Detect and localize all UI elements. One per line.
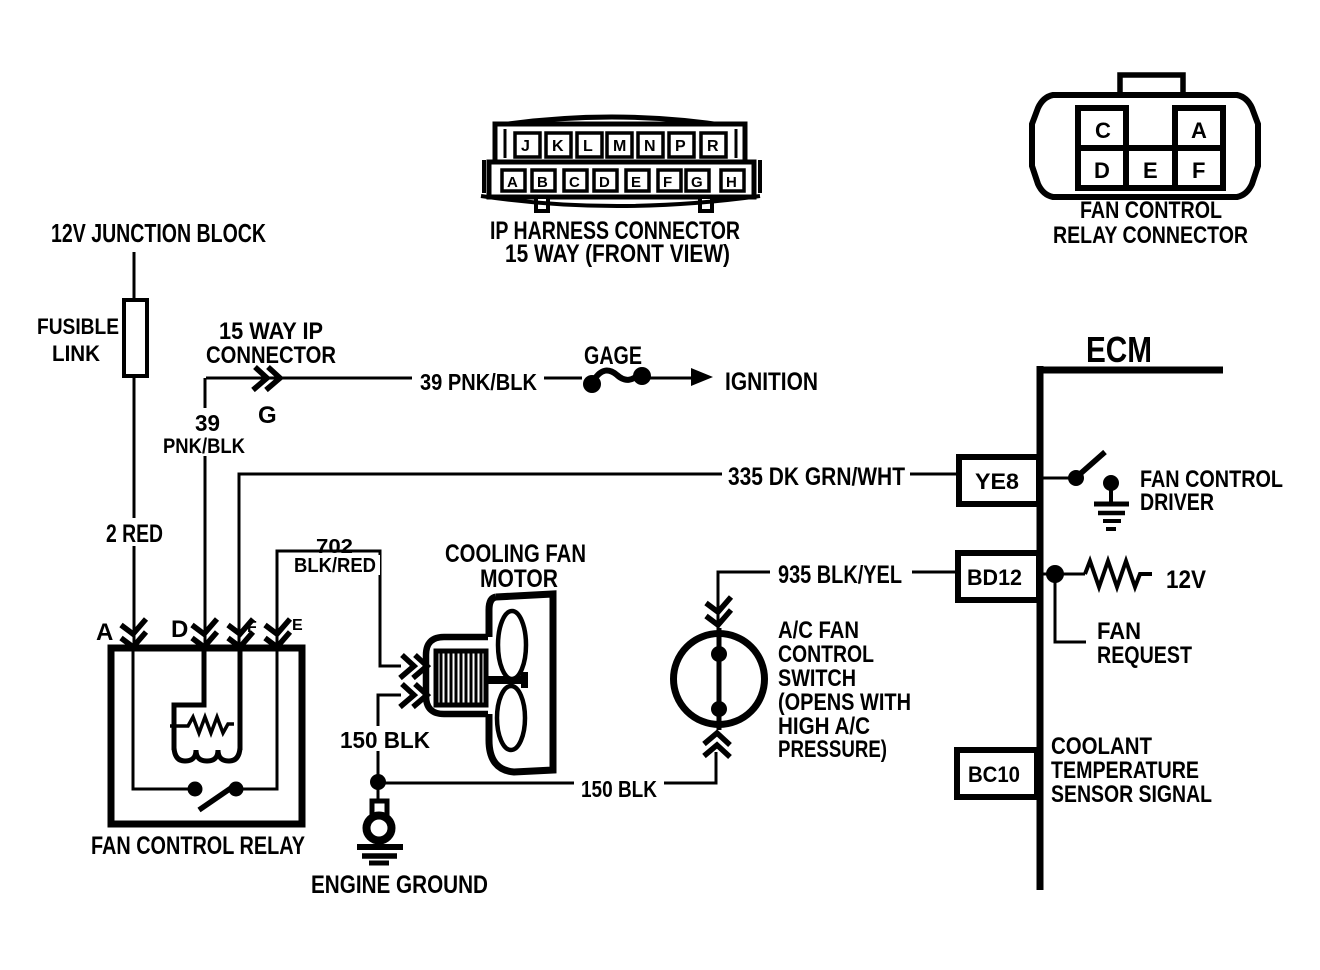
svg-text:F: F (1192, 158, 1205, 183)
svg-text:LINK: LINK (52, 341, 100, 366)
junction node at engine ground (370, 774, 386, 790)
pin C (564, 170, 587, 191)
fan control relay connector (top right) (1032, 75, 1258, 197)
pin R (701, 133, 726, 157)
svg-text:FAN: FAN (1097, 618, 1141, 645)
wire label 2 RED (100, 518, 170, 546)
svg-text:C: C (1095, 118, 1111, 143)
svg-text:D: D (1094, 158, 1110, 183)
svg-text:J: J (521, 138, 530, 155)
svg-text:PNK/BLK: PNK/BLK (163, 435, 245, 458)
svg-text:G: G (691, 174, 703, 191)
connector upper row housing (495, 124, 745, 162)
wire from junction block to fusible link (133, 252, 136, 300)
svg-text:FUSIBLE: FUSIBLE (37, 314, 119, 339)
motor winding hatched block (436, 651, 486, 705)
pin K (546, 133, 571, 157)
svg-text:FAN CONTROL RELAY: FAN CONTROL RELAY (91, 832, 305, 860)
wire 2 RED from fusible link to relay pin A (133, 376, 136, 645)
wire 702 BLK/RED from relay pin E to motor (277, 551, 401, 666)
svg-text:F: F (663, 174, 672, 191)
motor shaft (487, 676, 527, 684)
svg-text:N: N (644, 138, 656, 155)
svg-text:CONNECTOR: CONNECTOR (206, 342, 336, 369)
relay pin D chevron (192, 619, 217, 634)
connector bottom arc (481, 196, 760, 206)
ground inside ECM (1103, 475, 1119, 491)
svg-text:R: R (707, 138, 719, 155)
pin B (532, 170, 555, 191)
svg-text:150 BLK: 150 BLK (340, 727, 430, 753)
pin F (1175, 148, 1223, 188)
ECM terminal BD12 (958, 553, 1039, 600)
relay pin E chevron (265, 619, 290, 634)
svg-text:D: D (171, 616, 188, 643)
pin H (721, 170, 744, 191)
wire label 935 BLK/YEL (770, 558, 912, 586)
relay coil K1 between pins D and F (174, 648, 204, 750)
svg-text:TEMPERATURE: TEMPERATURE (1051, 757, 1199, 784)
svg-text:ECM: ECM (1086, 329, 1152, 370)
pin L (577, 133, 602, 157)
svg-text:IGNITION: IGNITION (725, 368, 818, 396)
connector top arc (494, 117, 728, 126)
fan blade upper (498, 611, 526, 679)
fan control driver switch inside ECM (1041, 477, 1070, 480)
svg-text:YE8: YE8 (975, 469, 1019, 494)
svg-text:C: C (569, 174, 580, 191)
connector lower row housing (489, 162, 754, 197)
junction node at BD12 (1041, 573, 1085, 576)
wire arrow to IGNITION (650, 377, 694, 380)
pin D (594, 170, 617, 191)
motor input chevron upper (400, 655, 414, 678)
svg-text:D: D (599, 174, 610, 191)
svg-text:ENGINE GROUND: ENGINE GROUND (311, 871, 488, 899)
connector tab (1120, 75, 1183, 99)
engine ground symbol (372, 801, 387, 815)
pin P (669, 133, 694, 157)
svg-text:DRIVER: DRIVER (1140, 489, 1214, 516)
svg-text:H: H (726, 174, 737, 191)
svg-text:FAN CONTROL: FAN CONTROL (1080, 197, 1222, 224)
pin A (1175, 108, 1223, 148)
wire to fan request (1055, 578, 1086, 642)
svg-text:335 DK GRN/WHT: 335 DK GRN/WHT (728, 463, 905, 491)
svg-text:SENSOR SIGNAL: SENSOR SIGNAL (1051, 781, 1212, 808)
wire 335 DK GRN/WHT from relay pin F to ECM YE8 (239, 474, 959, 645)
wire 150 BLK horizontal to A/C switch (378, 752, 716, 783)
relay resistor across coil (170, 717, 234, 733)
svg-text:A: A (1191, 118, 1207, 143)
svg-text:39: 39 (195, 410, 220, 436)
ECM terminal BC10 (957, 750, 1037, 797)
svg-text:E: E (292, 617, 303, 634)
motor body (426, 637, 488, 714)
pin M (607, 133, 632, 157)
svg-text:2 RED: 2 RED (106, 520, 163, 548)
relay box (111, 648, 302, 824)
svg-text:BLK/RED: BLK/RED (294, 555, 376, 577)
wire label 39 PNK/BLK (branch) (160, 408, 250, 456)
svg-text:A/C FAN: A/C FAN (778, 617, 859, 644)
svg-text:E: E (631, 174, 641, 191)
svg-text:SWITCH: SWITCH (778, 665, 856, 692)
pin D (1078, 148, 1126, 188)
svg-text:P: P (675, 138, 686, 155)
svg-text:15 WAY IP: 15 WAY IP (219, 318, 323, 345)
IP harness connector (top view) (481, 117, 760, 211)
wire label 150 BLK (motor side) (334, 726, 434, 751)
wire 935 BLK/YEL from A/C switch to BD12 (718, 572, 960, 630)
svg-text:K: K (552, 138, 564, 155)
svg-text:B: B (537, 174, 548, 191)
fan blade lower (497, 686, 525, 750)
fusible link F1 (124, 300, 147, 376)
pin G (686, 170, 709, 191)
svg-text:150 BLK: 150 BLK (581, 776, 657, 802)
svg-text:A: A (507, 174, 518, 191)
pin E (1126, 148, 1175, 188)
pin A (502, 170, 525, 191)
svg-text:G: G (258, 402, 277, 429)
svg-text:A: A (96, 619, 113, 646)
wire motor ground side 150 BLK (378, 695, 401, 782)
connector mounting tabs (536, 197, 548, 211)
wire label 39 PNK/BLK (412, 368, 544, 394)
wire label 150 BLK (switch side) (574, 775, 664, 800)
motor input chevron lower (400, 684, 414, 707)
svg-text:RELAY CONNECTOR: RELAY CONNECTOR (1053, 222, 1248, 249)
wire 39 PNK/BLK vertical to relay pin D (204, 378, 207, 645)
svg-text:39 PNK/BLK: 39 PNK/BLK (420, 369, 537, 395)
svg-text:CONTROL: CONTROL (778, 641, 874, 668)
pin F (658, 170, 681, 191)
wire to engine ground (377, 782, 380, 803)
svg-text:REQUEST: REQUEST (1097, 642, 1192, 669)
svg-text:F: F (247, 619, 257, 636)
A/C fan control switch S1 (674, 634, 765, 725)
relay switch contacts between pins A and E (133, 648, 188, 789)
svg-text:935 BLK/YEL: 935 BLK/YEL (778, 561, 902, 589)
A/C switch top chevron (706, 597, 731, 612)
svg-text:COOLING FAN: COOLING FAN (445, 540, 586, 568)
pin N (638, 133, 663, 157)
relay pin A chevron (121, 619, 146, 634)
svg-text:BC10: BC10 (968, 762, 1020, 787)
relay pin F chevron (228, 619, 253, 634)
ECM terminal YE8 (959, 457, 1039, 504)
ECM boundary (1037, 366, 1044, 890)
svg-text:M: M (613, 138, 626, 155)
cooling fan shroud outline (489, 594, 553, 772)
svg-text:12V: 12V (1166, 566, 1206, 594)
svg-text:BD12: BD12 (967, 565, 1022, 590)
svg-text:L: L (583, 138, 593, 155)
svg-text:COOLANT: COOLANT (1051, 733, 1152, 760)
pull-up resistor to 12V (1085, 561, 1152, 587)
svg-text:(OPENS WITH: (OPENS WITH (778, 689, 911, 716)
connector G chevron on 39 wire (253, 367, 267, 390)
connector body outline (1032, 95, 1258, 197)
svg-text:E: E (1143, 158, 1158, 183)
svg-text:PRESSURE): PRESSURE) (778, 736, 887, 763)
fuse GAGE symbol (583, 375, 601, 393)
svg-text:15 WAY (FRONT VIEW): 15 WAY (FRONT VIEW) (505, 240, 730, 268)
svg-text:12V JUNCTION BLOCK: 12V JUNCTION BLOCK (51, 218, 266, 248)
pin J (515, 133, 540, 157)
svg-text:GAGE: GAGE (584, 342, 642, 370)
wire label 335 DK GRN/WHT (722, 462, 910, 489)
svg-text:MOTOR: MOTOR (480, 565, 558, 593)
wire 39 PNK/BLK horizontal to gage (206, 377, 582, 380)
pin C (1078, 108, 1126, 148)
A/C switch bottom chevron (704, 733, 730, 745)
pin E (626, 170, 649, 191)
